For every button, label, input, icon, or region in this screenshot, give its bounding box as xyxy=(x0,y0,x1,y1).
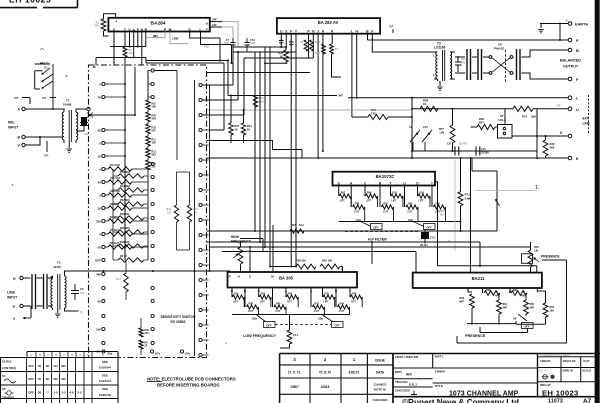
wire E net bus xyxy=(207,157,569,159)
wire L net bus xyxy=(348,97,568,99)
capacitor C11 xyxy=(476,147,480,156)
wire staircase to wafer c xyxy=(203,58,245,115)
svg-text:OFF: OFF xyxy=(28,391,34,395)
wire bus y242 xyxy=(207,241,481,243)
svg-text:EH 10023: EH 10023 xyxy=(9,0,51,4)
svg-text:R41: R41 xyxy=(315,52,320,55)
BA211 pot R65 xyxy=(483,288,511,293)
svg-text:10807: 10807 xyxy=(290,385,299,389)
wire J drop long xyxy=(317,34,319,158)
svg-text:2u/70V: 2u/70V xyxy=(459,143,467,146)
svg-text:R49: R49 xyxy=(367,192,372,195)
resistor R30 xyxy=(545,136,547,158)
svg-text:BEFORE INSERTING BOARDS: BEFORE INSERTING BOARDS xyxy=(157,383,219,388)
svg-text:CHECKED: CHECKED xyxy=(395,389,411,393)
wire y117 with R50 xyxy=(352,116,412,118)
wire wafer output column xyxy=(209,85,211,271)
capacitor C7 xyxy=(231,38,236,52)
presence pot R55 xyxy=(522,254,533,263)
svg-text:R14 1K8: R14 1K8 xyxy=(110,164,120,167)
EQ card BA305 xyxy=(228,272,358,288)
resistor R45 xyxy=(320,264,340,269)
BA1072C pot cluster xyxy=(338,186,340,197)
svg-text:DATE: DATE xyxy=(376,371,384,375)
svg-text:320: 320 xyxy=(96,219,101,223)
resistor R2 xyxy=(123,47,127,57)
svg-text:LINEAR: LINEAR xyxy=(540,359,550,363)
svg-text:LIFT: LIFT xyxy=(419,199,425,202)
scan smudges xyxy=(12,184,14,186)
wire F to connector xyxy=(23,305,30,307)
svg-text:NOTE: ELECTROLUBE PCB CONNECT: NOTE: ELECTROLUBE PCB CONNECTORS xyxy=(147,377,236,382)
svg-text:1K2: 1K2 xyxy=(299,224,304,227)
amplifier card BA284 xyxy=(108,18,209,32)
wire BA284 output 24F xyxy=(210,26,222,28)
wire bus y247 xyxy=(210,246,530,248)
resistor R17 xyxy=(124,273,128,292)
wire bus y52 xyxy=(233,51,296,53)
trimmer C9 xyxy=(410,130,420,151)
svg-text:T.P: T.P xyxy=(389,25,393,29)
svg-text:1·5: 1·5 xyxy=(53,391,58,395)
svg-text:R17: R17 xyxy=(116,278,121,281)
svg-text:B: B xyxy=(576,49,579,53)
wire bus y231 xyxy=(207,230,498,232)
svg-text:CUT: CUT xyxy=(276,310,281,313)
svg-text:LO1166: LO1166 xyxy=(434,46,446,50)
resistor R23 xyxy=(229,123,233,135)
wire BA283AV U S drops xyxy=(281,34,286,47)
svg-text:R53: R53 xyxy=(408,203,413,206)
resistor R41 xyxy=(322,44,326,54)
svg-text:220: 220 xyxy=(167,211,172,214)
svg-text:1800: 1800 xyxy=(250,42,256,45)
svg-text:24D: 24D xyxy=(204,45,209,49)
svg-text:25V: 25V xyxy=(461,61,466,64)
wire bus x125 xyxy=(124,65,126,260)
pot R51 high frequency xyxy=(240,242,242,247)
terminal F xyxy=(568,77,572,81)
wire y151 bus xyxy=(412,150,537,152)
wafer strip line xyxy=(194,80,196,356)
wire feedback loop x497 xyxy=(472,158,497,231)
svg-text:R54: R54 xyxy=(420,192,425,195)
wire U net bus xyxy=(412,108,513,110)
svg-text:F: F xyxy=(13,305,15,309)
wire H to connector xyxy=(23,277,30,279)
resistor R57 xyxy=(452,109,454,151)
svg-text:T.P: T.P xyxy=(42,96,46,100)
junction dots R38 wire xyxy=(290,266,292,268)
grey link y190 xyxy=(475,190,537,192)
svg-text:480: 480 xyxy=(96,272,101,276)
wire earth net xyxy=(540,24,568,41)
wire connector links xyxy=(37,278,52,306)
svg-text:R57: R57 xyxy=(439,127,444,131)
wire pot bus BA305 xyxy=(232,314,350,316)
sensitivity middle contact column xyxy=(151,69,154,72)
resistor R19 xyxy=(174,205,178,222)
svg-text:R72: R72 xyxy=(522,115,528,119)
sensitivity right contact column xyxy=(199,83,202,86)
svg-text:TRACED: TRACED xyxy=(395,380,408,384)
svg-text:SCALE: SCALE xyxy=(582,369,591,373)
wire R19 R20 rails xyxy=(177,172,190,250)
BA211 pot R62 xyxy=(497,300,502,314)
svg-text:INPUT: INPUT xyxy=(8,126,19,130)
svg-text:R39: R39 xyxy=(261,293,266,296)
svg-text:R35: R35 xyxy=(234,293,239,296)
resistor C4 xyxy=(330,44,334,54)
svg-text:DRG Nº: DRG Nº xyxy=(540,383,552,387)
resistor R28 xyxy=(304,40,308,51)
svg-text:L: L xyxy=(351,30,353,34)
wire F pin to T3 xyxy=(372,34,434,52)
svg-text:2K2: 2K2 xyxy=(440,213,445,216)
svg-text:170: 170 xyxy=(371,111,376,115)
wire BA284 pin drops xyxy=(114,32,146,47)
sensitivity switch dashed enclosure EX20853 xyxy=(89,65,207,358)
wire B to T1 xyxy=(25,136,62,138)
svg-text:R48: R48 xyxy=(355,203,360,206)
svg-text:S3b: S3b xyxy=(318,317,323,321)
svg-text:10K: 10K xyxy=(550,309,555,312)
svg-text:R42: R42 xyxy=(315,303,320,306)
svg-text:T: T xyxy=(124,28,126,32)
svg-text:NOTE Nº: NOTE Nº xyxy=(374,388,387,392)
svg-text:220: 220 xyxy=(145,332,150,335)
terminal B xyxy=(568,48,572,52)
svg-text:70 11 70: 70 11 70 xyxy=(319,371,331,375)
svg-text:PHASE: PHASE xyxy=(494,47,504,51)
wire A drop long xyxy=(322,34,324,151)
svg-text:6J8172: 6J8172 xyxy=(349,371,360,375)
BA211 pot R60 xyxy=(524,300,529,314)
wire bundle vertical 1 xyxy=(254,52,256,231)
svg-text:10K: 10K xyxy=(94,24,99,28)
svg-text:AHI: AHI xyxy=(406,373,412,377)
routing table grid xyxy=(1,352,119,403)
BA211 pot R61 xyxy=(511,291,527,296)
svg-text:±CAT: ±CAT xyxy=(583,359,590,363)
wire bus x135 xyxy=(134,67,136,115)
svg-text:R30: R30 xyxy=(550,142,555,146)
capacitor C2 xyxy=(279,39,284,46)
resistor R71 xyxy=(460,158,462,192)
svg-text:-20: -20 xyxy=(97,245,102,249)
sensitivity ladder second column xyxy=(112,169,114,260)
svg-text:17. 5. 71.: 17. 5. 71. xyxy=(288,371,301,375)
wire mid top link xyxy=(154,70,177,72)
wire L pin drop xyxy=(351,34,353,117)
projection symbols xyxy=(543,375,547,379)
svg-text:R3 3K3: R3 3K3 xyxy=(110,203,119,206)
svg-text:3K3: 3K3 xyxy=(152,118,157,121)
svg-text:INPUT: INPUT xyxy=(7,296,18,300)
svg-text:F: F xyxy=(290,30,292,34)
svg-text:-80: -80 xyxy=(92,65,97,69)
svg-text:S4a: S4a xyxy=(356,218,361,222)
switch S1 xyxy=(35,71,43,89)
svg-text:PRESENCE: PRESENCE xyxy=(465,334,486,338)
svg-text:J: J xyxy=(317,30,319,34)
wire pair to staircases xyxy=(146,58,228,131)
svg-text:1K5: 1K5 xyxy=(152,142,157,145)
svg-text:R44: R44 xyxy=(340,303,345,306)
svg-text:R40: R40 xyxy=(276,303,281,306)
svg-text:10468: 10468 xyxy=(63,103,72,107)
wire BA283AV F Y drops xyxy=(291,34,296,267)
svg-text:EX20044: EX20044 xyxy=(99,366,111,370)
svg-text:1K: 1K xyxy=(280,55,283,58)
svg-text:A7: A7 xyxy=(583,398,592,403)
wire corner x263 xyxy=(240,239,263,252)
svg-text:3·2: 3·2 xyxy=(61,391,66,395)
wire bundle vertical 3 xyxy=(264,47,266,247)
wire pot bus y221 xyxy=(339,221,461,223)
svg-text:TOLERANCES UNLESS STATED: TOLERANCES UNLESS STATED xyxy=(540,354,571,357)
ground T2 xyxy=(57,310,59,313)
svg-text:TITLE: TITLE xyxy=(435,384,443,388)
svg-text:70: 70 xyxy=(98,95,102,99)
svg-text:·7: ·7 xyxy=(46,391,49,395)
switch OFF presence xyxy=(522,323,534,329)
svg-text:CUT: CUT xyxy=(339,310,344,313)
wire R23 R24 stubs xyxy=(231,96,244,144)
dashed link S3 xyxy=(275,324,331,326)
svg-text:DRN: DRN xyxy=(395,370,402,374)
svg-text:EXT.: EXT. xyxy=(583,117,590,121)
capacitor C7A xyxy=(245,38,250,52)
svg-text:R15 1K8: R15 1K8 xyxy=(120,171,130,174)
svg-text:MAT'L: MAT'L xyxy=(435,355,444,359)
svg-text:CUT: CUT xyxy=(383,210,388,213)
svg-text:40: 40 xyxy=(98,180,102,184)
svg-text:DIMS IN: DIMS IN xyxy=(563,369,573,373)
wire junction row y57 xyxy=(96,47,146,66)
sensitivity ladder vertical stack xyxy=(147,70,149,100)
svg-text:OFF: OFF xyxy=(28,364,34,368)
wire x302 drop xyxy=(301,150,303,159)
svg-text:39K: 39K xyxy=(531,115,536,119)
resistor R38 xyxy=(270,266,296,268)
junction dots y47 bus xyxy=(280,46,282,48)
capacitor C1 xyxy=(81,117,87,126)
svg-text:220: 220 xyxy=(61,364,66,368)
svg-text:SEE: SEE xyxy=(102,373,108,377)
svg-text:D.D.J.: D.D.J. xyxy=(409,383,418,387)
svg-text:LIFT: LIFT xyxy=(233,300,239,303)
svg-text:S6: S6 xyxy=(513,317,517,321)
svg-text:T.P: T.P xyxy=(14,96,18,100)
svg-text:R51: R51 xyxy=(247,250,252,253)
svg-text:2200: 2200 xyxy=(224,42,230,45)
wire staircase to wafer b xyxy=(203,52,239,100)
wire K pin drop xyxy=(332,34,342,77)
wire V link xyxy=(25,137,40,145)
svg-text:LIFT: LIFT xyxy=(324,300,330,303)
svg-text:34F: 34F xyxy=(212,17,217,21)
svg-text:R5 3K3: R5 3K3 xyxy=(110,229,119,232)
svg-text:R36: R36 xyxy=(249,303,254,306)
svg-text:EARTH: EARTH xyxy=(575,23,588,27)
svg-text:S2c: S2c xyxy=(185,351,191,355)
svg-text:B: B xyxy=(206,22,208,26)
svg-text:LIFT: LIFT xyxy=(287,300,293,303)
svg-text:11073: 11073 xyxy=(548,399,563,403)
wire H pin drop xyxy=(356,34,358,98)
ground T1 xyxy=(68,142,70,148)
svg-text:1K8: 1K8 xyxy=(152,106,157,109)
svg-text:R18 220: R18 220 xyxy=(120,213,130,216)
wire junction column x412 xyxy=(411,98,413,158)
svg-text:C6: C6 xyxy=(80,287,84,291)
sensitivity gain resistor ladder horizontal xyxy=(105,168,108,170)
svg-text:3K3: 3K3 xyxy=(152,154,157,157)
svg-text:SEE: SEE xyxy=(102,360,108,364)
svg-text:LINE: LINE xyxy=(7,291,15,295)
svg-text:U: U xyxy=(576,108,579,112)
wire BA1072C right pin to BA211 xyxy=(435,182,438,266)
svg-text:C11: C11 xyxy=(481,147,486,151)
wire bus y251 xyxy=(222,252,416,273)
svg-text:14F: 14F xyxy=(556,104,561,108)
resistor R72 xyxy=(504,109,506,125)
terminal P xyxy=(568,38,572,42)
connector bars output xyxy=(516,49,518,80)
wire BA284 output 34F xyxy=(210,21,222,23)
svg-text:R6 1K3: R6 1K3 xyxy=(110,242,119,245)
svg-text:10K: 10K xyxy=(129,52,134,55)
svg-text:OFF: OFF xyxy=(28,377,34,381)
svg-text:4·8: 4·8 xyxy=(69,391,74,395)
svg-text:R17 1K0: R17 1K0 xyxy=(120,199,130,202)
terminal L xyxy=(568,96,572,100)
wire right loop x566 xyxy=(457,260,567,343)
svg-text:C: C xyxy=(206,27,208,31)
svg-text:S1: S1 xyxy=(44,66,48,70)
svg-text:R15 1K3: R15 1K3 xyxy=(110,177,120,180)
svg-text:EX20139: EX20139 xyxy=(99,393,111,397)
svg-text:LIFT: LIFT xyxy=(260,300,266,303)
svg-text:22/16V: 22/16V xyxy=(481,151,489,154)
svg-text:R16 3K8: R16 3K8 xyxy=(120,185,130,188)
wire inner vertical x177 xyxy=(176,71,178,161)
wire pot bottom bus BA211 xyxy=(467,323,516,325)
BA211 pot T xyxy=(468,288,472,292)
svg-text:EH 10023: EH 10023 xyxy=(542,389,579,398)
svg-text:C13: C13 xyxy=(461,57,466,61)
resistor R66 xyxy=(471,126,498,128)
svg-text:OFF: OFF xyxy=(426,225,432,229)
svg-text:R9 33: R9 33 xyxy=(120,255,127,258)
terminal U xyxy=(568,107,572,111)
svg-text:R38 220: R38 220 xyxy=(296,259,306,263)
svg-text:S5: S5 xyxy=(2,387,6,391)
svg-text:LIFT: LIFT xyxy=(366,199,372,202)
resistor R21 grey xyxy=(253,95,257,107)
wire R38 junction xyxy=(269,266,271,268)
svg-text:60: 60 xyxy=(46,364,50,368)
wire left contacts to bus xyxy=(105,83,125,85)
resistor R56 presence xyxy=(537,288,545,303)
svg-text:1K: 1K xyxy=(423,102,427,106)
svg-text:5K6: 5K6 xyxy=(550,145,555,149)
svg-text:R43: R43 xyxy=(325,293,330,296)
svg-text:R61: R61 xyxy=(513,289,518,292)
svg-text:PRESENCE: PRESENCE xyxy=(541,255,560,259)
svg-text:R67: R67 xyxy=(291,224,296,227)
svg-text:R47: R47 xyxy=(341,192,346,195)
svg-text:80: 80 xyxy=(46,377,50,381)
wire bundle vertical 2 xyxy=(259,52,261,242)
BA305 pot cluster xyxy=(231,288,233,297)
svg-text:OFF: OFF xyxy=(373,225,379,229)
svg-text:60: 60 xyxy=(98,299,102,303)
svg-text:BALANCED: BALANCED xyxy=(560,59,581,63)
EQ card BA1072C xyxy=(333,172,436,186)
svg-text:OFF: OFF xyxy=(334,323,340,327)
trimmer C10 xyxy=(422,130,432,151)
svg-text:1073 CHANNEL AMP: 1073 CHANNEL AMP xyxy=(449,390,519,397)
svg-text:©Rupert Neve & Company Ltd: ©Rupert Neve & Company Ltd xyxy=(402,398,519,403)
svg-text:CUT: CUT xyxy=(314,310,319,313)
svg-text:4M7: 4M7 xyxy=(503,306,508,309)
svg-text:FINISH: FINISH xyxy=(435,370,445,374)
terminal K xyxy=(568,134,572,138)
svg-text:BA 305: BA 305 xyxy=(279,276,294,281)
svg-text:4M7: 4M7 xyxy=(495,295,500,298)
svg-text:C10: C10 xyxy=(423,125,428,129)
svg-text:36: 36 xyxy=(38,391,42,395)
svg-text:2·2: 2·2 xyxy=(77,391,82,395)
svg-text:MIC.: MIC. xyxy=(8,121,15,125)
wire P net xyxy=(368,34,569,40)
hp filter dashed link xyxy=(345,231,420,233)
resistor R56 xyxy=(420,106,438,111)
svg-text:R56: R56 xyxy=(436,203,441,206)
svg-text:CUT: CUT xyxy=(354,210,359,213)
svg-text:50: 50 xyxy=(98,154,102,158)
wire line bus to BA305 xyxy=(79,271,230,272)
wire x372 drop xyxy=(371,242,373,264)
sensitivity left contact column xyxy=(102,82,105,85)
wire M pin drop BA305 xyxy=(272,225,274,272)
svg-text:S: S xyxy=(338,182,340,186)
capacitor C3 xyxy=(289,40,294,47)
grey vertical scan line xyxy=(454,160,456,251)
svg-text:LIN: LIN xyxy=(440,130,444,134)
wire R1 to BA284 pin 4 xyxy=(104,14,116,36)
resistor R24 xyxy=(241,123,245,135)
connector bars T3 secondary xyxy=(466,49,468,80)
svg-text:CHECKED: CHECKED xyxy=(373,398,389,402)
wire balanced output F xyxy=(522,73,569,79)
wire T1 input junction xyxy=(90,114,135,116)
svg-text:T.P: T.P xyxy=(44,154,48,158)
wire G pin drop BA305 xyxy=(249,247,251,272)
wire long y72 xyxy=(207,72,311,74)
svg-text:R46: R46 xyxy=(352,293,357,296)
svg-text:1u0: 1u0 xyxy=(84,133,89,136)
svg-text:2K7: 2K7 xyxy=(152,130,157,133)
svg-text:C12: C12 xyxy=(430,236,436,240)
capacitor C8 xyxy=(455,147,459,156)
svg-text:LIFT: LIFT xyxy=(340,199,346,202)
svg-text:BA211: BA211 xyxy=(472,276,485,281)
svg-text:C14: C14 xyxy=(293,333,298,337)
capacitor C13 xyxy=(455,56,462,72)
